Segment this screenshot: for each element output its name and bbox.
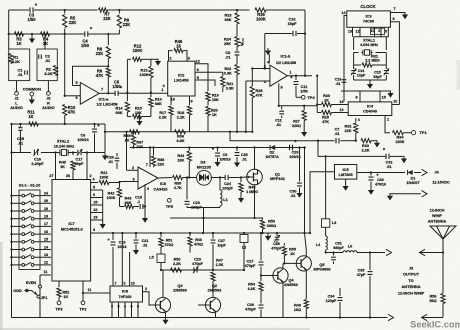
IC1-b output wire <box>287 70 312 76</box>
resistor R56 <box>429 253 445 318</box>
svg-text:47K: 47K <box>68 110 76 115</box>
capacitor C30 <box>290 146 303 198</box>
svg-text:7: 7 <box>101 88 103 92</box>
svg-text:470/16: 470/16 <box>375 183 386 187</box>
svg-text:10.240 MHz: 10.240 MHz <box>54 144 75 148</box>
svg-text:8: 8 <box>280 86 282 90</box>
svg-text:6: 6 <box>93 193 95 197</box>
svg-text:C19: C19 <box>135 196 142 200</box>
svg-text:100pF: 100pF <box>222 187 233 191</box>
svg-text:R18: R18 <box>177 111 184 115</box>
svg-text:12-INCH: 12-INCH <box>430 209 445 213</box>
op-amp IC1-a <box>80 83 118 107</box>
svg-text:R40: R40 <box>59 161 66 165</box>
test point TP2 <box>79 281 87 312</box>
svg-text:IC3: IC3 <box>365 13 372 18</box>
svg-text:1/50: 1/50 <box>300 90 307 94</box>
svg-text:2: 2 <box>89 174 91 178</box>
svg-text:14: 14 <box>44 245 48 249</box>
svg-text:74F160: 74F160 <box>119 295 132 299</box>
IC7 pin 4 wire / resistor R41 <box>91 171 120 185</box>
svg-text:20: 20 <box>44 199 48 203</box>
svg-text:C9: C9 <box>223 153 228 157</box>
svg-text:R55: R55 <box>289 248 296 252</box>
svg-text:8: 8 <box>137 305 139 309</box>
test point TP5 <box>166 198 174 208</box>
IC3 pin 8 wire <box>390 17 399 105</box>
svg-text:47K: 47K <box>96 73 104 78</box>
IC6 pin 2 wire <box>127 166 139 170</box>
svg-text:5: 5 <box>197 76 199 80</box>
svg-text:56Ω: 56Ω <box>429 299 436 303</box>
svg-text:R38: R38 <box>157 158 164 162</box>
IC1-a pin 5 input wire <box>73 81 81 85</box>
switch S1-6 <box>10 230 51 236</box>
capacitor C1 <box>17 68 27 78</box>
svg-text:L6: L6 <box>348 245 352 249</box>
resistor R50 <box>171 258 182 273</box>
svg-text:R39: R39 <box>174 182 181 186</box>
IC8 box <box>110 286 143 302</box>
wire xtal2 row <box>10 151 96 153</box>
svg-text:1 MEG: 1 MEG <box>246 190 258 194</box>
Q5 emitter / resistor R49 <box>294 271 308 319</box>
svg-text:11: 11 <box>370 29 374 33</box>
resistor R16 <box>149 93 162 117</box>
svg-text:R17: R17 <box>159 111 166 115</box>
svg-text:15: 15 <box>176 44 181 49</box>
svg-text:2N3563: 2N3563 <box>173 288 187 293</box>
seekic watermark <box>410 319 460 329</box>
IC2 pin 13 wire <box>171 96 175 105</box>
wire y270 <box>160 269 245 271</box>
svg-text:3: 3 <box>264 80 266 84</box>
capacitor C27 <box>245 232 264 276</box>
IC2 box <box>168 56 195 96</box>
IC6 output / resistor R39 <box>158 175 189 190</box>
svg-text:C24: C24 <box>224 182 232 186</box>
resistor R12 <box>127 44 148 62</box>
svg-text:R54: R54 <box>248 283 256 287</box>
svg-text:22K: 22K <box>345 129 352 133</box>
transistor Q4 <box>261 268 299 287</box>
svg-text:3: 3 <box>93 228 95 232</box>
svg-text:11-15VDC: 11-15VDC <box>432 181 450 185</box>
svg-text:.01: .01 <box>18 141 24 146</box>
IC4 box <box>348 102 392 116</box>
svg-text:100K: 100K <box>107 196 116 200</box>
IC5 output wire <box>309 172 335 234</box>
IC2 pin 6 wire <box>195 68 223 72</box>
svg-text:JP1: JP1 <box>41 296 48 300</box>
svg-text:.01: .01 <box>336 82 341 86</box>
svg-text:2.2K: 2.2K <box>361 149 369 153</box>
IC7 pin 11 wire <box>40 270 51 275</box>
resistor R48 <box>188 232 203 253</box>
resistor R35b on bus <box>124 130 140 143</box>
diode D2 <box>265 145 279 159</box>
resistor R23 <box>225 9 240 24</box>
IC3 pin 7 ground <box>390 7 408 19</box>
bottom rail J3 arrows <box>388 314 443 320</box>
resistor R11 <box>27 110 38 127</box>
wire y156 link <box>317 140 386 157</box>
svg-text:C21: C21 <box>142 239 149 243</box>
capacitor C19 <box>134 196 147 210</box>
wire pin27 leg <box>49 153 55 180</box>
capacitor C32 <box>383 148 407 169</box>
svg-text:12-INCH WHIP: 12-INCH WHIP <box>398 290 425 295</box>
resistor R5 <box>63 9 77 34</box>
svg-text:.01: .01 <box>45 58 51 63</box>
svg-text:6: 6 <box>197 68 199 72</box>
svg-text:100K: 100K <box>256 17 266 22</box>
svg-text:220Ω: 220Ω <box>292 124 301 128</box>
Q2 base stub <box>198 304 205 306</box>
svg-text:680pF: 680pF <box>333 246 344 250</box>
svg-text:22K: 22K <box>123 22 131 27</box>
op-amp IC6 <box>138 167 167 192</box>
svg-text:C32: C32 <box>386 161 393 165</box>
svg-text:25K: 25K <box>224 42 231 46</box>
svg-text:2: 2 <box>145 287 147 291</box>
switch S1-2 <box>10 199 51 205</box>
svg-text:R16: R16 <box>155 98 162 102</box>
svg-text:R43: R43 <box>125 197 132 201</box>
Q1 gate wire <box>239 176 247 179</box>
capacitor C25b bypass <box>234 146 248 167</box>
capacitor C36 <box>245 303 263 318</box>
svg-text:R51: R51 <box>166 239 173 243</box>
svg-text:IC8: IC8 <box>122 289 129 294</box>
resistor R3 <box>15 32 24 46</box>
svg-text:TP2: TP2 <box>79 307 87 312</box>
svg-text:C7: C7 <box>335 128 340 132</box>
svg-text:10Ω: 10Ω <box>294 308 301 312</box>
IC1-a output wire pin 7 <box>99 88 114 95</box>
svg-text:4.7K: 4.7K <box>174 186 182 190</box>
resistor R1 <box>9 54 20 65</box>
jack J1 <box>10 81 23 111</box>
resistor R14 <box>116 93 130 117</box>
svg-text:1K: 1K <box>16 41 21 46</box>
svg-text:470pF: 470pF <box>271 246 282 250</box>
svg-text:47K: 47K <box>322 120 329 124</box>
svg-text:8.2K: 8.2K <box>44 71 52 76</box>
connector J4 plus <box>422 169 440 175</box>
svg-text:TP5: TP5 <box>166 204 174 209</box>
inductor L1 <box>220 178 229 208</box>
resistor R7 <box>99 8 120 21</box>
svg-text:1K: 1K <box>43 41 48 46</box>
bus C wire <box>130 147 306 149</box>
svg-text:CA3420: CA3420 <box>154 188 168 192</box>
wire pin8 node <box>278 105 318 107</box>
svg-text:16: 16 <box>44 230 48 234</box>
capacitor C18 <box>107 232 126 286</box>
svg-text:10K: 10K <box>212 98 219 102</box>
svg-text:7: 7 <box>393 7 395 11</box>
svg-text:R28: R28 <box>256 89 263 93</box>
svg-text:11: 11 <box>88 288 92 292</box>
resistor R46 loop <box>169 39 188 61</box>
svg-text:15: 15 <box>44 238 48 242</box>
svg-text:22K: 22K <box>157 163 164 167</box>
svg-text:CLOCK: CLOCK <box>360 4 376 9</box>
op-amp IC1-b <box>267 54 296 87</box>
bottom ground rail <box>12 317 388 319</box>
IC2 pin1 label <box>161 84 165 92</box>
svg-text:R52: R52 <box>62 291 69 295</box>
capacitor C8 <box>225 47 239 60</box>
svg-text:1/50: 1/50 <box>113 84 122 89</box>
resistor R18 <box>177 106 192 132</box>
resistor R19 <box>206 89 219 106</box>
svg-text:68K: 68K <box>155 102 162 106</box>
resistor R4 <box>41 32 50 46</box>
svg-text:1K: 1K <box>28 114 33 119</box>
IC7 box <box>52 180 91 282</box>
capacitor C21 <box>133 232 148 255</box>
trimmer capacitor C14 <box>351 65 366 80</box>
capacitor C24 <box>218 175 239 191</box>
IC4 pin 13 label <box>340 108 344 112</box>
svg-text:68K: 68K <box>225 18 232 22</box>
svg-text:12: 12 <box>44 261 48 265</box>
IC6 pin 7 wire <box>146 146 151 167</box>
svg-text:8: 8 <box>355 95 357 99</box>
svg-text:R37: R37 <box>136 141 143 145</box>
svg-text:68K: 68K <box>125 201 132 205</box>
svg-text:D2: D2 <box>270 151 275 155</box>
svg-text:CD4040: CD4040 <box>363 110 377 114</box>
diode D1 <box>406 170 419 185</box>
IC4 pin 8 stub <box>355 91 360 102</box>
svg-text:R53: R53 <box>268 220 275 224</box>
wire mix node y124 <box>10 123 105 125</box>
svg-text:10: 10 <box>393 100 397 104</box>
IC7 pin 6 wire <box>91 193 103 198</box>
IC4 pin 15 stub <box>380 91 386 102</box>
connector J4 minus wire <box>387 181 450 201</box>
svg-text:470Ω: 470Ω <box>194 243 203 247</box>
svg-text:1K: 1K <box>324 99 329 103</box>
svg-text:47K: 47K <box>256 94 263 98</box>
resistor R55 <box>282 243 296 263</box>
svg-text:R44: R44 <box>177 154 185 158</box>
svg-text:6: 6 <box>131 305 133 309</box>
wire top rail to IC1-b <box>119 9 249 11</box>
svg-text:22K: 22K <box>69 20 77 25</box>
varactor D3 <box>189 160 218 186</box>
svg-text:1/50: 1/50 <box>28 17 37 22</box>
inductor L2 <box>240 232 248 270</box>
svg-text:IC6: IC6 <box>160 181 167 186</box>
resistor R21 <box>221 72 234 92</box>
resistor R13 <box>139 59 153 93</box>
capacitor C2 <box>39 54 51 64</box>
svg-text:C8: C8 <box>225 51 230 55</box>
svg-text:68K: 68K <box>116 111 123 115</box>
capacitor C11 <box>290 76 307 98</box>
wire vco bottom <box>170 208 255 235</box>
svg-text:C23: C23 <box>194 258 201 262</box>
test point TP4 <box>296 95 315 100</box>
svg-text:2N3563: 2N3563 <box>208 288 222 293</box>
svg-text:12: 12 <box>196 59 200 63</box>
resistor R42 <box>107 183 122 207</box>
svg-text:1/2 LM1458: 1/2 LM1458 <box>276 61 296 65</box>
svg-text:C33: C33 <box>377 178 384 182</box>
IC4 pin 10 wire <box>392 100 400 105</box>
svg-text:6.8K: 6.8K <box>176 139 184 143</box>
svg-text:WHIP: WHIP <box>432 214 442 218</box>
resistor R51 / inductor L5 <box>149 232 173 270</box>
svg-text:R19: R19 <box>212 94 219 98</box>
svg-text:9: 9 <box>124 282 126 286</box>
svg-text:1K: 1K <box>125 139 130 143</box>
svg-text:EVEN: EVEN <box>26 281 37 285</box>
IC7 pin 3 wire <box>91 228 108 233</box>
svg-text:R14: R14 <box>116 107 124 111</box>
IC1-a pin 6 input wire <box>65 96 81 100</box>
svg-text:R34: R34 <box>397 136 405 140</box>
resistor R43 <box>120 197 134 209</box>
capacitor C25 <box>17 123 25 153</box>
IC4 pin 16 label <box>340 100 344 104</box>
transistor Q1 <box>247 146 286 184</box>
svg-text:C16: C16 <box>34 158 41 162</box>
svg-text:1/50: 1/50 <box>81 43 90 48</box>
svg-text:23: 23 <box>94 215 98 219</box>
svg-text:R13: R13 <box>141 69 148 73</box>
inductor L6 <box>343 245 357 253</box>
ground near R12 <box>148 59 161 66</box>
svg-text:100/16: 100/16 <box>289 155 300 159</box>
svg-text:TO: TO <box>408 278 413 283</box>
crystal XTAL2 <box>54 139 75 156</box>
svg-text:17: 17 <box>44 222 48 226</box>
svg-text:2.2K: 2.2K <box>159 116 167 120</box>
svg-text:13: 13 <box>348 29 352 33</box>
svg-text:.1: .1 <box>137 200 140 204</box>
switch S1-7 <box>10 238 51 244</box>
resistor R26b <box>292 106 307 137</box>
svg-text:COMMON: COMMON <box>23 87 41 92</box>
svg-text:27: 27 <box>49 174 53 178</box>
svg-text:S1-1 - S1-10: S1-1 - S1-10 <box>19 184 41 188</box>
IC7 pins 25 22 23 to ground <box>91 190 106 229</box>
IC3 bottom pin stubs <box>348 27 388 37</box>
svg-text:XTAL1: XTAL1 <box>363 37 376 42</box>
svg-text:ANTENNA: ANTENNA <box>428 219 447 223</box>
ground under R15 <box>136 115 142 125</box>
crystal XTAL1 <box>354 37 387 55</box>
Q2 emitter <box>215 313 217 318</box>
capacitor C31 <box>331 242 344 265</box>
svg-text:5: 5 <box>93 185 95 189</box>
wire left vertical <box>8 10 10 34</box>
svg-text:.01: .01 <box>334 132 339 136</box>
svg-text:10: 10 <box>131 282 135 286</box>
svg-text:LM7805: LM7805 <box>339 173 353 177</box>
svg-text:R27: R27 <box>293 120 300 124</box>
svg-text:C17: C17 <box>76 158 83 162</box>
supply rail y233 <box>108 232 310 234</box>
capacitor C9 <box>212 146 231 166</box>
svg-text:16: 16 <box>340 100 344 104</box>
capacitor C26 <box>107 153 119 169</box>
svg-text:22K: 22K <box>103 16 111 21</box>
wire output to counter <box>316 75 318 113</box>
svg-text:.01: .01 <box>242 158 247 162</box>
resistor R29 <box>317 110 348 124</box>
svg-text:12: 12 <box>356 29 360 33</box>
switch S1-4 <box>10 215 51 221</box>
svg-text:R47: R47 <box>216 259 223 263</box>
switch S1-9 <box>10 253 51 259</box>
svg-text:C6: C6 <box>81 134 86 138</box>
wire left rail down <box>11 124 13 318</box>
svg-text:C26: C26 <box>107 156 114 160</box>
svg-text:L5: L5 <box>149 256 153 260</box>
wire xtal row to ground node <box>96 152 105 154</box>
bus B wire <box>229 131 356 141</box>
svg-text:5: 5 <box>385 29 387 33</box>
resistor R6 <box>117 9 130 34</box>
IC1-b pin 8 wire <box>279 83 283 106</box>
svg-text:8: 8 <box>392 17 394 21</box>
svg-text:ODD: ODD <box>13 289 22 293</box>
resistor R36 on bus <box>175 130 186 143</box>
svg-text:26: 26 <box>66 174 70 178</box>
trimmer capacitor C28 <box>265 232 283 251</box>
resistor R38 <box>151 146 164 167</box>
svg-text:R15: R15 <box>135 107 142 111</box>
svg-text:24: 24 <box>44 191 48 195</box>
svg-text:R48: R48 <box>195 238 202 242</box>
IC2 pin 5 wire <box>195 76 215 86</box>
svg-text:C30: C30 <box>290 190 297 194</box>
svg-text:15pF: 15pF <box>288 22 298 26</box>
transistor Q3 <box>155 283 187 313</box>
svg-text:C27: C27 <box>247 260 254 264</box>
svg-text:2-20pF: 2-20pF <box>31 162 44 166</box>
transistor Q2 <box>205 283 222 313</box>
resistor R44 <box>177 146 191 178</box>
svg-text:1K: 1K <box>290 252 295 256</box>
svg-text:4: 4 <box>124 305 126 309</box>
jack J2 <box>42 81 55 111</box>
antenna symbol <box>428 209 456 254</box>
svg-text:.01: .01 <box>386 165 391 169</box>
svg-text:XTAL2: XTAL2 <box>57 139 70 144</box>
svg-text:MV2105: MV2105 <box>197 165 211 169</box>
svg-text:22K: 22K <box>136 145 143 149</box>
svg-text:2.2K: 2.2K <box>173 262 181 266</box>
capacitor C13 <box>335 78 347 87</box>
svg-text:2.2K: 2.2K <box>177 116 185 120</box>
svg-text:C13: C13 <box>335 78 342 82</box>
svg-text:2: 2 <box>169 56 171 60</box>
svg-text:.01: .01 <box>290 194 295 198</box>
svg-text:3.3K: 3.3K <box>224 72 232 76</box>
svg-text:R50: R50 <box>174 258 181 262</box>
svg-text:100/16: 100/16 <box>77 138 88 142</box>
IC3 pin 14 wire <box>342 11 347 101</box>
svg-text:R41: R41 <box>101 171 108 175</box>
svg-text:D3: D3 <box>201 160 207 165</box>
